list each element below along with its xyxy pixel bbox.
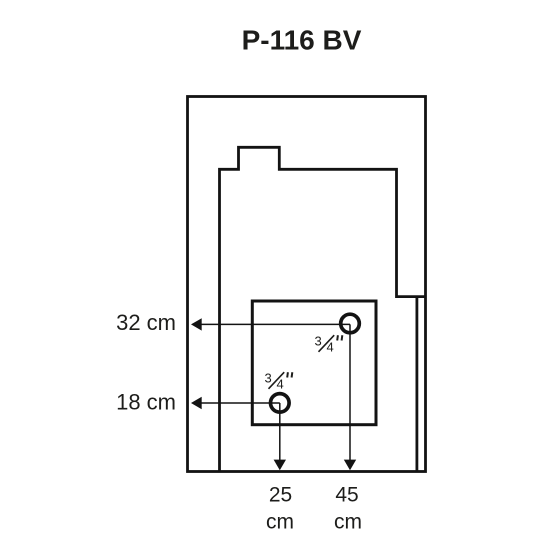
svg-text:25: 25 bbox=[269, 484, 292, 507]
svg-text:18 cm: 18 cm bbox=[116, 390, 176, 415]
svg-text:P-116 BV: P-116 BV bbox=[242, 25, 362, 56]
dimension line 18 cm bbox=[191, 397, 280, 409]
svg-text:32 cm: 32 cm bbox=[116, 310, 176, 335]
stove body outline bbox=[220, 147, 426, 471]
dimension line 25 cm (vertical) bbox=[274, 403, 286, 470]
label 3/4 inch (upper hole) bbox=[315, 334, 343, 355]
lower hole 3/4" bbox=[271, 394, 290, 413]
svg-text:3: 3 bbox=[265, 371, 272, 386]
svg-text:4: 4 bbox=[327, 340, 334, 355]
svg-text:3: 3 bbox=[315, 334, 322, 349]
stove right inner wall bbox=[415, 297, 418, 472]
label 25 cm bbox=[266, 484, 294, 534]
outer enclosure rectangle bbox=[188, 97, 426, 472]
label 3/4 inch (lower hole) bbox=[265, 371, 293, 392]
svg-text:45: 45 bbox=[335, 484, 358, 507]
svg-text:cm: cm bbox=[334, 510, 362, 533]
dimension line 45 cm (vertical) bbox=[344, 324, 356, 470]
svg-text:cm: cm bbox=[266, 510, 294, 533]
dimension line 32 cm bbox=[191, 318, 350, 330]
connection plate bbox=[252, 301, 376, 425]
label 45 cm bbox=[334, 484, 362, 534]
svg-text:4: 4 bbox=[277, 377, 284, 392]
upper hole 3/4" bbox=[341, 314, 360, 333]
